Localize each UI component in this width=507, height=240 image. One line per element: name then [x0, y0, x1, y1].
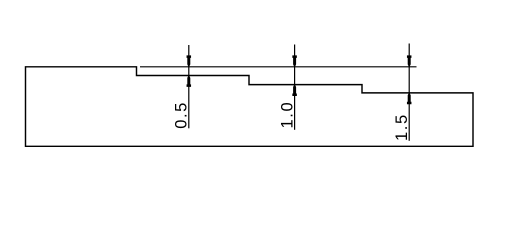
part outline (stepped plate cross-section) — [26, 67, 474, 147]
dimension D1 bottom arrow — [187, 76, 192, 87]
dimension D2 line — [294, 45, 296, 130]
dimension D1 line — [188, 45, 190, 128]
dimension D2 top arrow — [292, 55, 297, 66]
svg-text:1.0: 1.0 — [278, 101, 296, 129]
svg-text:1.5: 1.5 — [393, 113, 411, 141]
svg-text:0.5: 0.5 — [173, 101, 191, 129]
extension line of top surface — [140, 66, 417, 68]
dimension D1 top arrow — [187, 55, 192, 66]
dimension D3 bottom arrow — [407, 93, 412, 104]
dimension D3 top arrow — [407, 55, 412, 66]
dimension D2 bottom arrow — [292, 85, 297, 96]
dimension D3 line — [408, 44, 410, 141]
